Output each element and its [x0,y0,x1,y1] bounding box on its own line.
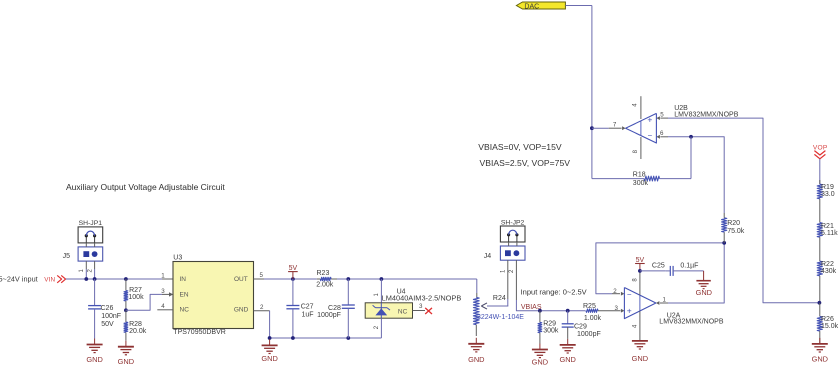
wire DAC vertical [591,6,593,179]
op-amp U2A [624,288,656,319]
resistor R26 [819,303,821,317]
svg-text:50V: 50V [101,321,114,328]
svg-text:SH-JP2: SH-JP2 [501,219,525,226]
ground C26 [94,339,96,345]
svg-text:−: − [647,131,652,140]
svg-text:C29: C29 [574,324,587,331]
wire U4 pin2 to rail [380,318,382,338]
svg-text:SH-JP1: SH-JP1 [79,220,103,227]
svg-text:GND: GND [696,288,712,297]
svg-text:6: 6 [660,130,664,137]
svg-text:75.0k: 75.0k [727,228,745,235]
svg-text:GND: GND [261,354,277,363]
capacitor C29 [562,323,574,325]
svg-text:GND: GND [532,358,548,365]
svg-text:R26: R26 [821,316,834,323]
capacitor C25 [669,266,671,276]
svg-text:5: 5 [260,272,264,279]
wire U4 pin1 [380,279,382,303]
wire C29 to gnd [567,327,569,339]
capacitor C27 [286,305,299,307]
svg-text:3: 3 [419,303,423,310]
connector J4 [500,246,525,260]
ground C25 [703,271,705,281]
power pin U2B pin8 stub [640,137,642,159]
svg-text:4: 4 [161,303,165,310]
wire R18 riser [690,137,692,179]
resistor R23 [317,278,321,280]
junction rail at U3 gnd [268,336,272,340]
capacitor C26 [88,305,101,307]
wire J5 pin2 down [94,261,96,269]
svg-text:−: − [627,290,632,299]
pin lead U2A pin3 [621,309,625,313]
wire C26 to gnd [94,309,96,339]
junction rail at C27 [291,336,295,340]
svg-text:LMV832MMX/NOPB: LMV832MMX/NOPB [674,111,739,118]
svg-text:3224W-1-104E: 3224W-1-104E [477,314,524,321]
pin lead U2A output [656,301,660,305]
svg-text:J4: J4 [484,253,492,260]
svg-text:R22: R22 [821,261,834,268]
junction J5 pin1 [84,277,88,281]
svg-text:TPS70950DBVR: TPS70950DBVR [173,329,226,336]
svg-text:C25: C25 [652,263,665,270]
svg-text:GND: GND [86,355,102,364]
pin lead U3 NC stub [157,309,173,311]
svg-text:100nF: 100nF [101,313,121,320]
svg-text:5~24V input: 5~24V input [0,274,38,283]
jumper SH-JP1 [78,227,103,243]
pot wiper arrow R24 [487,305,508,307]
svg-text:20.0k: 20.0k [129,328,147,335]
net flag VOP [813,144,828,159]
pin lead U3 GND pin2 [254,310,270,312]
connector J5 [78,247,103,261]
resistor R28 [125,310,127,322]
resistor R21 [817,223,822,238]
svg-text:2: 2 [260,304,264,311]
pin lead U3 OUT [254,278,265,280]
IC U4 body [365,303,412,318]
wire VOP down to R19 [819,159,821,184]
wire U3 gnd down to rail [269,311,271,338]
pin lead U3 EN [162,293,170,295]
capacitor C28 [342,304,355,306]
svg-text:1000pF: 1000pF [317,312,341,319]
svg-text:5.11k: 5.11k [821,230,838,237]
svg-text:Auxiliary Output Voltage Adjus: Auxiliary Output Voltage Adjustable Circ… [66,182,225,192]
junction R18 riser [689,135,693,139]
svg-text:VBIAS=0V, VOP=15V: VBIAS=0V, VOP=15V [478,142,562,152]
svg-text:1: 1 [161,272,165,279]
junction feedback tap [818,301,822,305]
wire C27 to rail [292,309,294,338]
svg-text:R28: R28 [129,321,142,328]
wire R20 up to U2B pin6 corner [668,137,724,213]
wire DAC flag to corner [565,5,592,7]
no-connect X at U4 pin3 [425,308,432,314]
resistor R20 [723,232,725,243]
wire C28 branch [347,279,349,305]
pin lead U2B pin6 [660,136,668,138]
wire R23 to U4 node [337,278,477,280]
ground U2A [639,340,641,342]
svg-text:DAC: DAC [524,3,539,10]
wire VBIAS horizontal [540,310,586,312]
power pin U2A pin8 [639,271,641,295]
ground R26 [819,338,821,344]
svg-text:+: + [627,306,632,316]
resistor R25 [586,309,598,312]
junction 5V U2A [638,269,642,273]
ground rail horizontal [270,337,382,339]
wire U2A feedback loop [596,243,724,294]
svg-text:IN: IN [180,276,187,283]
svg-text:VBIAS=2.5V, VOP=75V: VBIAS=2.5V, VOP=75V [480,158,571,168]
wires SH-JP1 to J5 [85,243,87,247]
pin lead U2B pin7 [592,127,609,129]
svg-text:R21: R21 [821,223,834,230]
wire 5V to C25 [640,270,666,272]
svg-text:100k: 100k [128,294,144,301]
svg-text:R18: R18 [633,171,646,178]
junction rail at C28 [346,336,350,340]
junction U2B output [590,126,594,130]
junction R27 top [124,277,128,281]
svg-text:NC: NC [180,307,190,314]
ground R29 [539,344,541,350]
capacitor C29 branch [567,311,569,324]
svg-text:33.0: 33.0 [821,191,835,198]
ground U3 [269,339,271,345]
wire J5 pin1 down [85,261,87,269]
power pin U2A pin4 [639,311,641,341]
svg-text:7: 7 [613,121,617,128]
junction C29 [566,309,570,313]
svg-text:1uF: 1uF [302,311,314,318]
svg-text:VIN: VIN [44,277,55,284]
pin lead U3 pin1 [162,278,173,280]
svg-text:R24: R24 [493,295,506,302]
wires SH-JP2 to J4 [508,242,510,246]
IC U3 body [173,262,254,329]
svg-text:3: 3 [615,305,619,312]
svg-text:C27: C27 [301,304,314,311]
ground C29 [567,339,569,345]
wire drop to R24 [476,279,478,293]
resistor R27 [125,279,127,291]
svg-text:OUT: OUT [234,276,248,283]
wire U2A output to R20 node [668,243,724,303]
wire J4 pin2 down [515,260,517,300]
svg-text:3: 3 [161,288,165,295]
svg-text:15.0k: 15.0k [821,323,839,330]
svg-text:EN: EN [180,291,189,298]
net flag VIN [44,275,65,283]
wire VIN main horizontal [66,278,162,280]
svg-text:J5: J5 [63,253,71,260]
svg-text:GND: GND [812,355,828,364]
svg-text:R20: R20 [727,220,740,227]
junction C28 top [346,277,350,281]
junction R27 R28 EN [124,308,128,312]
power pin U2B pin4 stub [640,96,642,119]
svg-text:300k: 300k [633,180,649,187]
svg-text:R23: R23 [317,270,330,277]
svg-text:GND: GND [632,354,648,363]
svg-text:U3: U3 [173,255,182,262]
wire EN branch [126,294,162,310]
wire OUT to R24 drop [264,278,317,280]
svg-text:2.00k: 2.00k [316,282,334,289]
svg-text:R25: R25 [583,303,596,310]
svg-text:LM4040AIM3-2.5/NOPB: LM4040AIM3-2.5/NOPB [382,294,462,303]
svg-text:R27: R27 [129,287,142,294]
svg-text:GND: GND [234,307,249,314]
svg-text:LMV832MMX/NOPB: LMV832MMX/NOPB [659,318,724,325]
capacitor C27 branch wire [292,279,294,306]
resistor R22 [817,261,822,276]
net flag DAC [516,2,565,10]
svg-text:300k: 300k [543,328,559,335]
pin lead U2B pin5 [656,116,660,120]
junction J5 pin2 [93,277,97,281]
ground R28 [125,341,127,347]
svg-text:0.1µF: 0.1µF [680,263,698,270]
svg-text:1000pF: 1000pF [577,331,601,338]
wire C26 branch [94,279,96,306]
jumper SH-JP2 [500,226,525,242]
svg-text:2: 2 [613,288,617,295]
potentiometer R24 [476,293,478,297]
zener diode symbol U4 [373,303,390,318]
junction U4 top [380,277,384,281]
svg-text:5: 5 [660,111,664,118]
svg-text:GND: GND [559,355,575,364]
junction 5V node [291,277,295,281]
svg-text:+: + [647,115,652,125]
svg-text:GND: GND [118,357,134,365]
resistor R19 [819,180,821,184]
svg-text:GND: GND [468,355,484,364]
wire U2B pin5 to feedback tap [668,118,819,303]
pin lead U2A pin2 [612,293,620,295]
resistor R29 [539,311,541,323]
svg-text:1: 1 [663,297,667,304]
wire J4 pin1 to wiper [507,260,509,299]
svg-text:Input range: 0~2.5V: Input range: 0~2.5V [521,288,587,297]
svg-text:VOP: VOP [813,144,828,151]
junction R29 [538,309,542,313]
svg-text:C26: C26 [101,305,114,312]
svg-text:C28: C28 [328,305,341,312]
svg-text:1.00k: 1.00k [584,315,602,322]
ground R24 [475,338,477,344]
svg-text:R19: R19 [821,184,834,191]
pin lead U4 pin3 [413,310,426,312]
junction R20 bottom [722,241,726,245]
wire C28 to rail [347,308,349,338]
svg-text:NC: NC [398,308,408,315]
op-amp U2B [626,113,657,143]
svg-text:430k: 430k [821,268,837,275]
resistor R18 [660,178,692,180]
svg-text:R29: R29 [543,320,556,327]
